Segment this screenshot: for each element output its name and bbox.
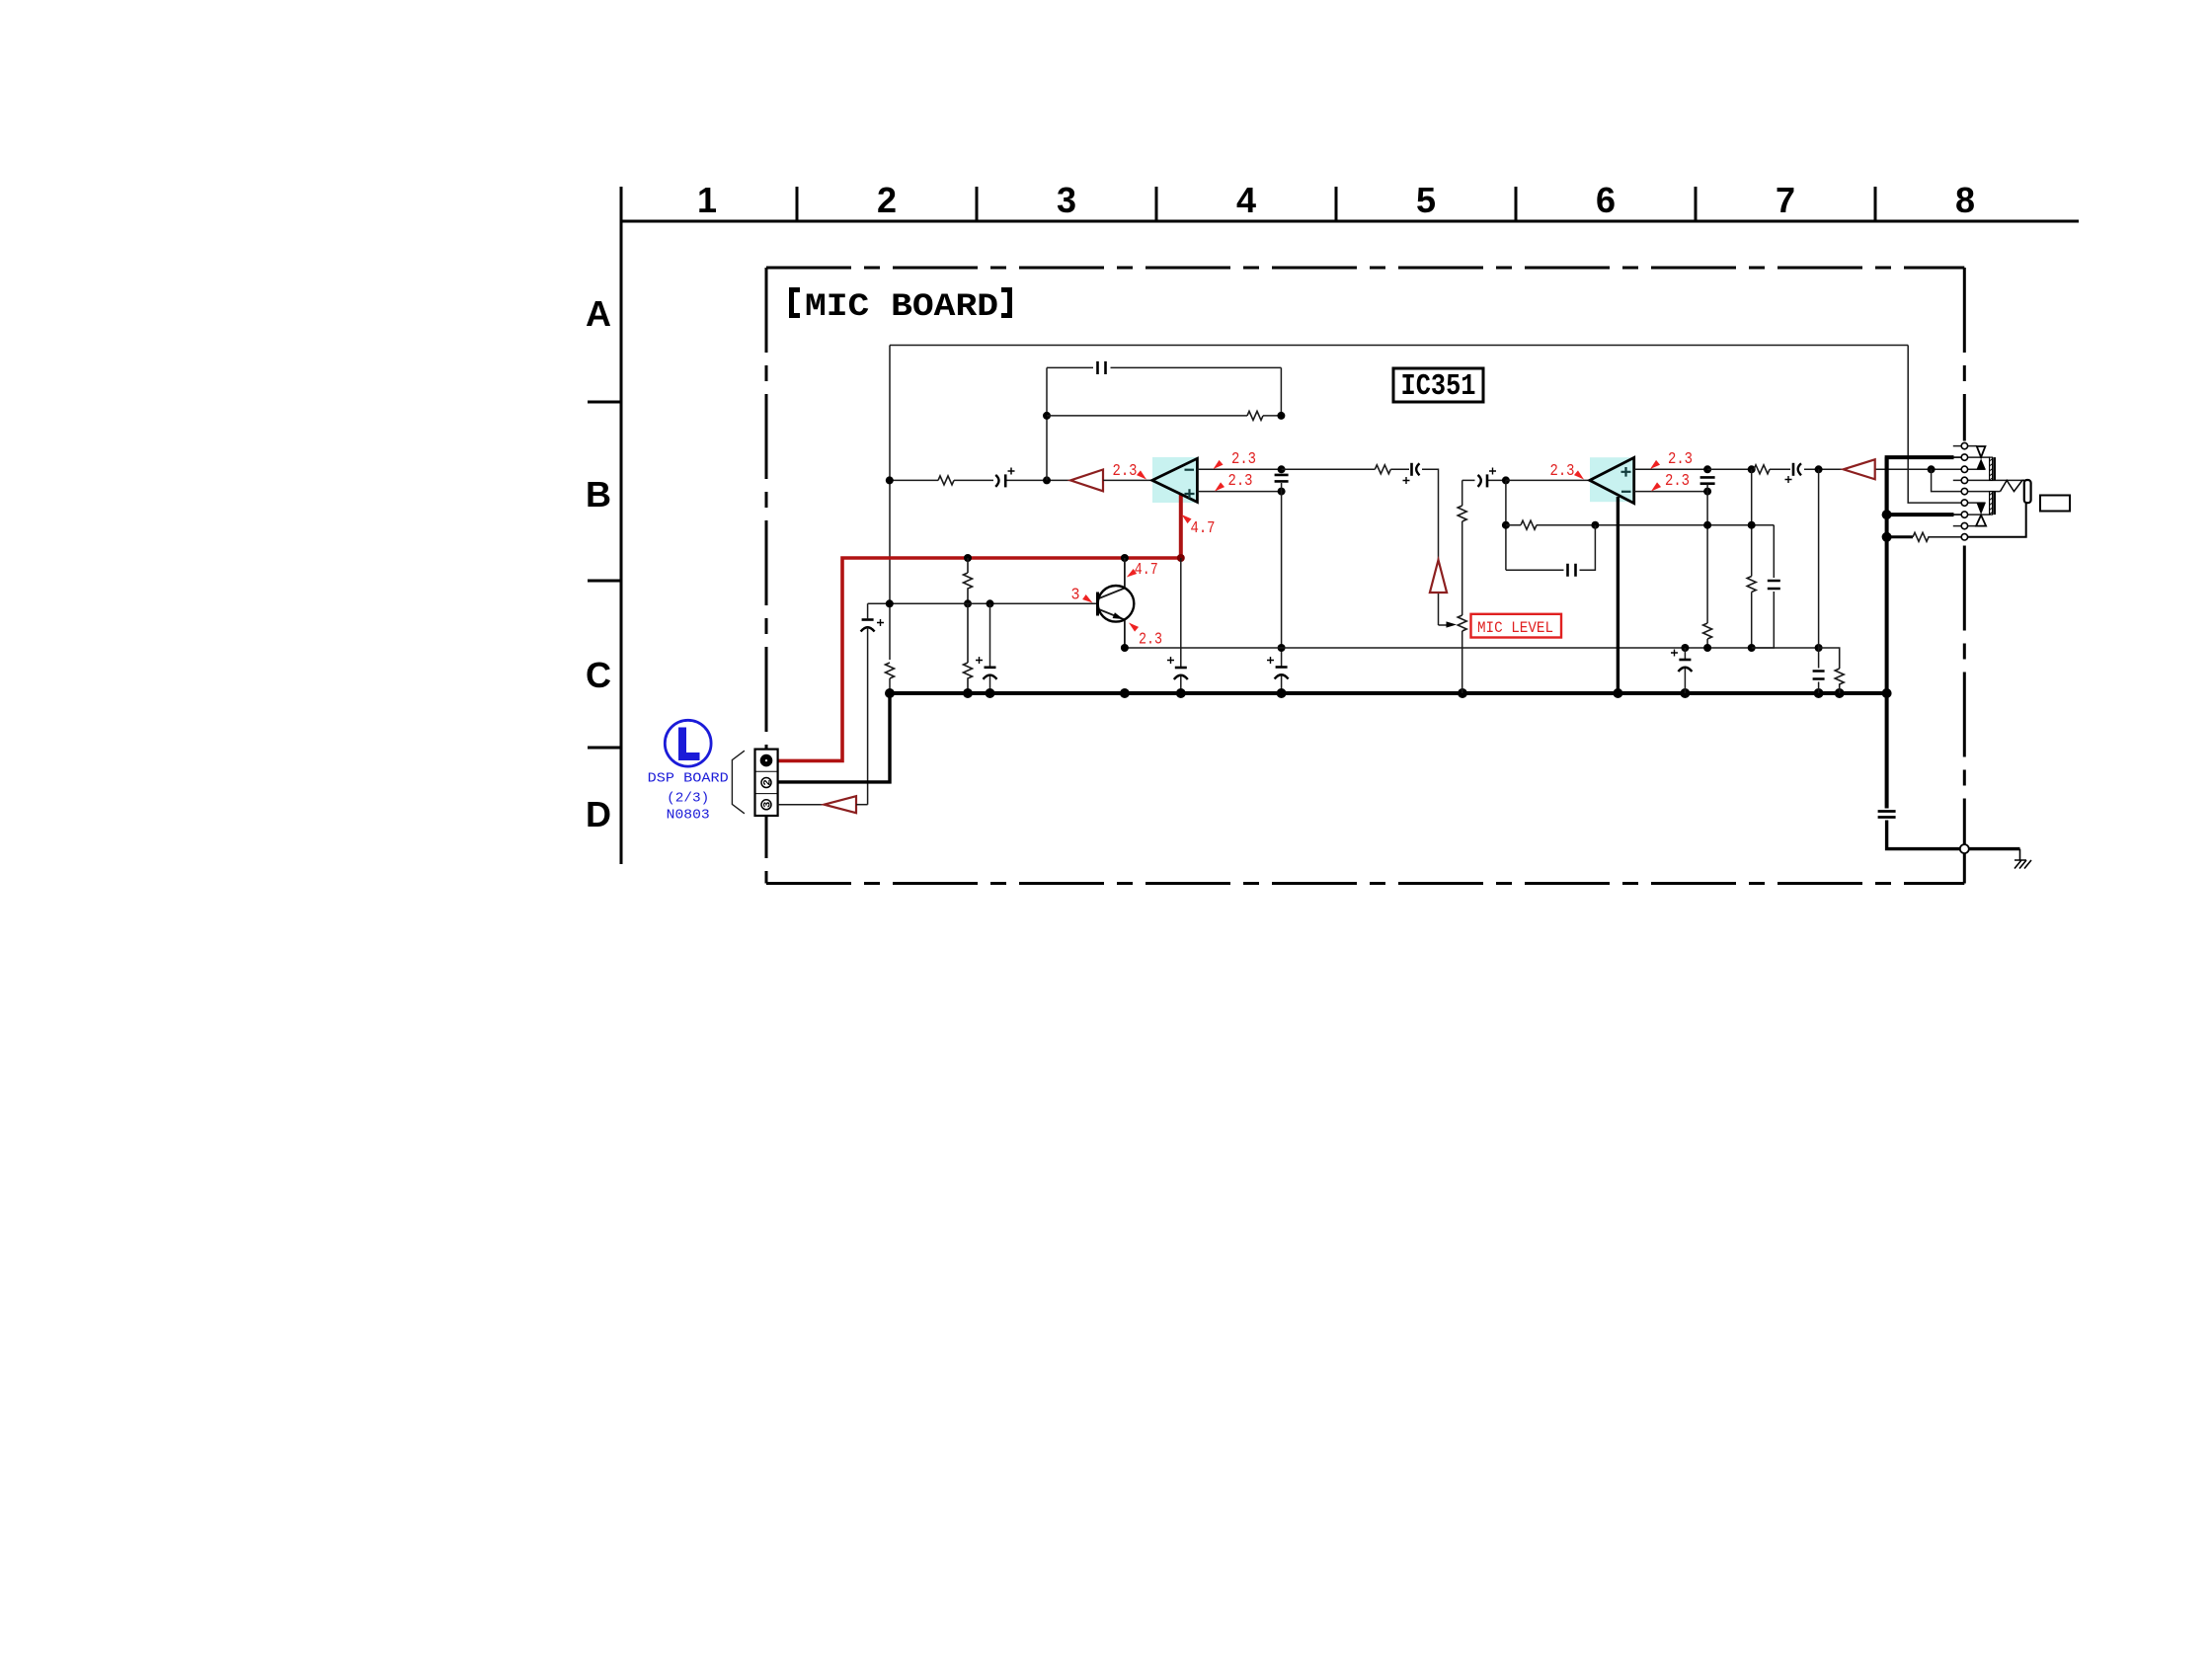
svg-text:4.7: 4.7 [1135,561,1158,580]
svg-text:4: 4 [1236,180,1256,220]
node N4 [1278,465,1286,473]
node N13 [1591,521,1599,529]
wire arrow to op-amp [1103,479,1152,481]
resistor R13 [1913,532,1961,541]
transistor Q1 emitter wire [1098,609,1125,649]
node on red wire 2 [1121,554,1129,562]
wire feedback resistor row [1047,415,1281,417]
jack J1 pin stubs left [1953,446,1961,526]
node N17 [1703,644,1711,652]
resistor R4 (bias upper) [964,558,973,603]
svg-text:MIC LEVEL: MIC LEVEL [1477,619,1553,637]
wire column x1297 down [1281,483,1283,693]
node on red wire [964,554,972,562]
title bracket right [1001,290,1010,316]
svg-text:4.7: 4.7 [1191,519,1216,538]
node N7 [886,599,894,607]
node N15 [1703,488,1711,496]
capacitor C12 polarized (output row) [1792,463,1795,476]
node red corner [1177,554,1185,562]
signal arrow A3 (dark red open triangle) [1844,459,1875,479]
svg-text:3: 3 [762,802,774,808]
MIC BOARD border top [766,267,1964,270]
wire stage2 feedback cap loop [1506,525,1596,571]
resistor R5 (bias lower) [964,603,973,693]
wire x1729 column [1706,484,1708,648]
wire x1773 column [1751,469,1753,648]
board ref circled L [665,720,711,766]
jack J1 plug body rectangle [2040,496,2070,512]
resistor R10 (output row) [1754,465,1770,474]
title bracket left [792,290,801,316]
transistor Q1 base bar [1096,593,1099,616]
svg-text:N0803: N0803 [667,807,710,823]
bus branch pin7 (thick) [1887,513,1954,516]
svg-text:2.3: 2.3 [1668,450,1693,469]
connector CN801 pin 1 [760,754,773,767]
jack J1 switch upper open triangle [1977,446,1986,457]
node N24 (output to jack) [1928,465,1935,473]
resistor R12 (x1862) [1819,648,1845,693]
MIC BOARD border left [765,268,768,884]
op-amp U1A plus label [1185,489,1195,499]
svg-text:B: B [586,474,611,515]
svg-text:3: 3 [1071,587,1080,605]
capacitor C6 polarized (x1002 column) [989,603,991,693]
rail junction dots [885,688,895,698]
svg-text:6: 6 [1596,180,1616,220]
svg-text:A: A [586,293,611,334]
jack J1 upper contact bar hatched [1990,457,1993,480]
resistor R3 (feedback) [1247,411,1263,420]
transistor Q1 circle [1098,586,1135,622]
capacitor C5 polarized (x878 column) [862,618,874,621]
wire op2 input [1506,479,1590,481]
svg-text:3: 3 [1057,180,1076,220]
wire U1A non-inverting input row [1197,491,1281,493]
jack J1 tip bar [2024,480,2031,503]
bus node pin9 [1882,532,1892,542]
node N5 [1278,488,1286,496]
wire stage2 feedback row [1506,524,1774,526]
svg-text:MIC BOARD: MIC BOARD [805,288,998,325]
capacitor C14 polarized (x1706) [1684,648,1686,693]
wire top net [890,345,1908,347]
transistor Q1 collector wire [1098,558,1125,599]
node N21 [1748,644,1756,652]
node N11 [1502,476,1510,484]
wire U1B inverting row [1634,491,1707,493]
svg-text:2.3: 2.3 [1228,472,1253,491]
node N20 [1748,521,1756,529]
MIC BOARD border bottom [766,882,1964,885]
jack J1 switch lower open triangle [1976,515,1986,526]
svg-text:2: 2 [877,180,897,220]
wire left column lower [889,678,891,693]
signal arrow A2 (up, dark red) [1430,560,1447,593]
capacitor C15 (x1841) [1818,469,1820,693]
border crossing circle [1960,844,1969,853]
node N22 [1681,644,1689,652]
capacitor C2 (feedback) [1098,361,1106,374]
op-amp U1B highlight [1590,457,1634,502]
jack J1 switch upper filled triangle [1977,458,1986,469]
signal arrow A4 (dark red open triangle, pin3) [825,796,856,813]
op-amp U1A triangle [1152,458,1198,502]
capacitor C8 polarized (coupling) [1410,463,1413,476]
svg-text:5: 5 [1416,180,1436,220]
connector CN801 box [755,750,778,816]
capacitor C3 (between inputs) [1275,475,1289,482]
capacitor C4 polarized (x1297 bottom) [1276,666,1288,669]
resistor R1 (left column) [886,663,895,678]
wire emitter row y656 [1125,647,1819,649]
node N1 [1043,476,1051,484]
wire feedback cap loop [1047,367,1281,480]
resistor R8 (stage2 feedback) [1521,520,1537,529]
resistor R6 (coupling) [1375,465,1390,474]
node N12 [1502,521,1510,529]
wire x1796 cap branch [1752,525,1775,648]
ruler top line [621,220,2079,223]
svg-text:2.3: 2.3 [1113,462,1138,481]
bus node pin7 [1882,510,1892,519]
svg-text:2.3: 2.3 [1665,472,1690,491]
node N9 [987,599,994,607]
ground rail (thick) [890,691,1887,695]
wire pot top to cap [1462,479,1506,481]
connector CN801 harness bracket [732,751,745,814]
IC351 label box [1393,368,1483,402]
wire base row [868,602,1098,604]
capacitor C11 (U1B inputs) [1700,477,1715,483]
connector CN801 pin 2 [761,778,771,788]
op-amp U1B output wire (thick) [1617,497,1619,693]
jack J1 lower contact bar hatched [1990,492,1993,515]
wire drop to jack pin5 [1932,469,1962,491]
jack J1 switch lower filled triangle [1977,503,1986,515]
node N19 [1815,465,1823,473]
svg-text:2.3: 2.3 [1231,450,1256,469]
svg-text:2.3: 2.3 [1139,631,1162,650]
ground symbol [2014,849,2031,869]
node base left [964,599,972,607]
svg-text:D: D [586,794,611,834]
svg-text:8: 8 [1955,180,1975,220]
svg-text:DSP BOARD: DSP BOARD [648,771,729,787]
capacitor C7 (x1195 column) [1180,558,1182,693]
node N2 [1043,412,1051,420]
svg-text:7: 7 [1776,180,1795,220]
node N10 [1121,644,1129,652]
jack J1 pin circles [1961,442,1967,448]
capacitor C13 (x1796) [1768,581,1780,589]
signal arrow A1 (dark red open triangle) [1070,470,1103,492]
wire pin3 row [778,804,825,806]
svg-text:1: 1 [697,180,717,220]
svg-text:2: 2 [762,779,774,785]
resistor R2 (stage1 input) [938,476,954,485]
wire left column upper [889,346,891,661]
ruler left line [620,187,623,864]
wiper arrow wire [1439,624,1448,626]
op-amp U1B triangle [1590,457,1634,503]
ruler left tick marks [588,402,621,748]
ruler top tick marks [797,187,1875,221]
node N18 [1748,465,1756,473]
wire U1B non-inverting row [1634,468,1707,470]
connector CN801 pin 3 [761,800,771,810]
op-amp U1A highlight [1152,457,1198,503]
node N23 [1815,644,1823,652]
node N3 [1277,412,1285,420]
svg-text:2.3: 2.3 [1550,462,1575,481]
capacitor C10 (stage2 feedback) [1568,564,1576,577]
potentiometer column top [1461,480,1463,506]
red supply wire from connector pin1 [778,558,1181,760]
resistor R9 (x1729) [1703,623,1712,639]
op-amp U1A output wire (red thick) [1179,495,1183,558]
bus lower segment to cap [1885,693,1889,809]
bus branch pin9 with resistor R13 [1887,535,1913,538]
wire stage1 input row [890,479,1070,481]
MIC BOARD border right upper [1963,268,1966,441]
wire right column from top net [1908,346,1961,504]
resistor R7 (pot series) [1458,506,1466,521]
node N14 [1703,465,1711,473]
MIC BOARD border right lower [1963,543,1966,884]
bus top corner (thick) to jack pin2 [1887,457,1954,515]
node N8 [886,476,894,484]
wire node column x1524 [1505,480,1507,570]
node N6 [1278,644,1286,652]
wire stage2 output row [1707,468,1961,470]
op-amp U1B minus label [1621,491,1631,493]
capacitor C9 polarized (stage2 input) [1478,475,1481,487]
jack J1 internal wires right [1968,446,2025,526]
wire stage2 coupling row [1282,469,1439,625]
potentiometer VR1 MIC LEVEL [1461,521,1463,615]
svg-text:(2/3): (2/3) [667,790,709,806]
wire x878 column to pin3 [867,603,869,804]
wire U1A inverting input row [1197,468,1281,470]
rail drop to connector pin2 (thick) [778,693,890,782]
jack J1 sleeve wire [1968,504,2026,537]
wire cap to ground corner (thick) [1887,821,2020,849]
node N16 [1703,521,1711,529]
resistor R11 (x1773) [1747,577,1756,593]
capacitor C1 polarized (stage1 input) [995,475,998,487]
svg-text:IC351: IC351 [1401,369,1476,404]
jack J1 spring zigzag [2001,480,2025,491]
op-amp U1A minus label [1185,469,1195,471]
capacitor C16 (bus bottom) [1878,812,1896,818]
wire pin3 to riser [856,804,868,806]
MIC LEVEL label box [1471,614,1562,638]
op-amp U1B plus label [1621,467,1631,477]
bus vertical (thick) [1885,457,1889,693]
svg-text:C: C [586,655,611,695]
